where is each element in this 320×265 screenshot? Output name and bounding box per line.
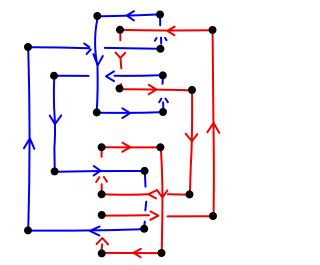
wire: blue edge G to F, left part bbox=[58, 75, 89, 77]
arrowhead down on edge I-P bbox=[186, 134, 198, 142]
arrowhead left on edge S-R bbox=[90, 227, 100, 236]
wire: blue edge O to S (dashed vertical), dash 1 bbox=[144, 175, 147, 187]
node R (blue) bbox=[24, 226, 32, 234]
wire: red edge E to D (horizontal y30) bbox=[124, 29, 210, 32]
node S (blue) bbox=[140, 225, 148, 233]
node N (red cycle) bbox=[156, 143, 164, 151]
node O (blue) bbox=[141, 167, 149, 175]
wire: blue edge F to L (vertical x54) bbox=[54, 80, 55, 168]
node P (red cycle) bbox=[186, 190, 194, 198]
wire: red edge V to T (vertical x101), lower stub bbox=[101, 244, 104, 249]
wire: blue edge A to G2 (horizontal y48), left part bbox=[32, 47, 90, 48]
node W (red cycle) bbox=[158, 249, 166, 257]
arrowhead up on edge Q-M (arm dashes only) bbox=[96, 177, 99, 182]
node I (red cycle) bbox=[188, 86, 196, 94]
wire: blue edge G to F (horizontal y76), right part bbox=[115, 74, 160, 77]
arrowhead up on edge V-T bbox=[97, 238, 109, 244]
node H (red cycle) bbox=[116, 85, 124, 93]
arrowhead down on edge B-J bbox=[93, 54, 102, 65]
wire: red edge Q to M, upper stub bbox=[101, 151, 103, 157]
node E (red cycle) bbox=[209, 26, 217, 34]
wire: blue edge R to A (left vertical) bbox=[28, 51, 29, 227]
wire: red edge I to P (vertical x192) bbox=[190, 94, 192, 191]
node F (blue) bbox=[50, 72, 58, 80]
node B (blue) bbox=[93, 12, 101, 20]
wire: red edge T to U, right part bbox=[168, 215, 210, 217]
arrowhead down on edge F-L bbox=[50, 115, 61, 124]
node L (blue) bbox=[51, 167, 59, 175]
node U (red cycle) bbox=[209, 212, 217, 220]
wire: blue edge K to G, upper stub bbox=[162, 79, 164, 84]
wire: red edge U to E (right vertical x213) bbox=[213, 34, 214, 213]
wire: red edge D to H, lower stub bbox=[120, 84, 121, 86]
arrowhead up on edge R-A bbox=[24, 138, 34, 148]
arrowhead left on edge P-Q bbox=[148, 191, 156, 199]
wire: blue edge K to G (vertical), lower stem bbox=[162, 102, 164, 108]
wire: red edge H to I (horizontal y90) bbox=[123, 89, 188, 90]
arrowhead left on edge E-D bbox=[167, 27, 174, 36]
wire: blue edge S to R (bottom horizontal y230) bbox=[32, 229, 141, 230]
wire: blue edge L to O (horizontal y171) bbox=[58, 170, 140, 173]
node Q (red cycle) bbox=[98, 190, 106, 198]
wire: blue edge J to K (horizontal y112) bbox=[101, 111, 160, 114]
arrowhead up on edge G2-C (arm dashes) bbox=[155, 38, 157, 41]
node G (blue) bbox=[159, 71, 167, 79]
arrowhead up on edge U-E bbox=[207, 123, 219, 133]
wire: blue edge O to S, dash 3 bbox=[143, 222, 145, 226]
arrowhead right on edge H-I bbox=[149, 85, 157, 94]
arrowhead down on edge N-W bbox=[157, 190, 167, 198]
node J (blue) bbox=[93, 108, 101, 116]
node D (red cycle) bbox=[116, 26, 124, 34]
arrowhead up on edge K-G (arm dashes) bbox=[159, 99, 161, 103]
wire: blue edge G2 to C (short vertical), lower stem bbox=[160, 38, 162, 44]
arrowhead left on edge C-B bbox=[127, 11, 134, 20]
arrowhead right on edge M-N bbox=[122, 143, 130, 152]
wire: blue edge C to B (top horizontal) bbox=[101, 15, 157, 17]
node V (red cycle) bbox=[98, 249, 106, 257]
node A (blue) bbox=[24, 43, 32, 51]
node K (blue) bbox=[159, 108, 167, 116]
arrowhead right on edge J-K bbox=[122, 108, 130, 118]
node G2 (blue) bbox=[156, 45, 164, 53]
wire: red edge P to Q (horizontal y194), right part bbox=[168, 193, 186, 195]
wire: red edge M to N (horizontal y147) bbox=[105, 146, 156, 148]
wire: red edge N to W (vertical x162) bbox=[161, 151, 162, 249]
arrowhead right on edge A-G2 (sketchy) bbox=[84, 44, 89, 48]
wire: blue edge A to G2, right part bbox=[105, 47, 158, 50]
wire: blue edge O to S, dash 2 bbox=[145, 202, 146, 211]
wire: blue edge G2 to C, upper stub bbox=[159, 19, 161, 26]
wire: red edge D to H (vertical x120), upper stub bbox=[119, 34, 121, 41]
arrowhead left on edge W-V bbox=[134, 249, 141, 257]
node T (red cycle) bbox=[98, 211, 106, 219]
wire: red edge P to Q, left part bbox=[105, 193, 148, 196]
wire: red edge T to U (horizontal y216), left part bbox=[106, 214, 150, 216]
wire: red edge W to V (bottom horizontal y253) bbox=[106, 252, 158, 254]
node M (red cycle) bbox=[98, 143, 106, 151]
arrowhead right on edge T-U bbox=[150, 212, 158, 220]
wire: blue edge B to J (vertical x97) bbox=[95, 20, 98, 109]
wire: red edge Q to M (vertical x101), lower stub bbox=[101, 184, 103, 190]
arrowhead right on edge L-O bbox=[94, 166, 101, 175]
arrowhead left on edge G-F bbox=[106, 71, 114, 81]
arrowhead down on edge D-H (Y shape with stem) bbox=[116, 53, 126, 58]
node C (blue) bbox=[156, 11, 164, 19]
